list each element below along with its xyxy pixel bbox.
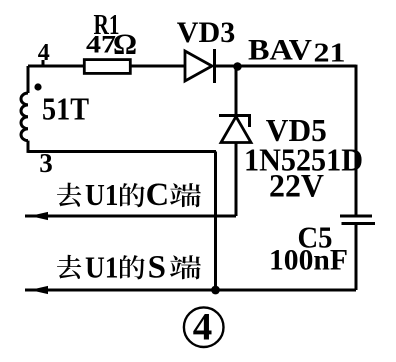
wire: right rail upper (to C5) xyxy=(355,65,358,216)
resistor R1 xyxy=(84,60,130,74)
wire: right rail lower (C5 to S line) xyxy=(355,224,358,291)
svg-text:21: 21 xyxy=(314,38,346,68)
wire: VD5 anode down to C line xyxy=(235,143,238,217)
svg-text:VD3: VD3 xyxy=(177,16,236,49)
svg-text:100nF: 100nF xyxy=(269,244,348,277)
svg-text:S: S xyxy=(148,250,166,286)
wire: C-terminal line xyxy=(25,215,236,218)
wire: S-terminal line xyxy=(25,289,356,292)
svg-text:22V: 22V xyxy=(269,169,324,205)
wire: R1 to VD3 xyxy=(131,65,186,68)
zener diode VD5 xyxy=(219,116,251,143)
wire: node A to top-right corner xyxy=(237,65,356,68)
pin label 4 xyxy=(38,40,50,66)
polarity dot xyxy=(34,83,41,90)
capacitor C5 xyxy=(340,216,375,224)
wire: top rail pin4 to R1 xyxy=(28,65,84,68)
svg-text:C: C xyxy=(146,177,169,213)
svg-text:51T: 51T xyxy=(42,91,89,127)
svg-text:4: 4 xyxy=(193,306,213,349)
node A junction dot xyxy=(233,62,242,71)
svg-text:BAV: BAV xyxy=(248,34,312,67)
wire: pin3 horizontal xyxy=(28,150,216,153)
svg-text:U1: U1 xyxy=(85,177,119,212)
arrow to U1 C terminal xyxy=(30,212,48,220)
wire: VD3 to node A xyxy=(215,65,239,68)
figure number 4 (circled) xyxy=(184,306,224,349)
svg-text:47: 47 xyxy=(86,32,116,59)
label go-to-U1-C (去U1的C端) xyxy=(57,177,201,213)
diode VD3 xyxy=(185,49,215,83)
value 47&#937; xyxy=(86,28,137,61)
label go-to-U1-S (去U1的S端) xyxy=(57,250,201,286)
label BAV21 xyxy=(248,34,346,68)
svg-text:Ω: Ω xyxy=(113,28,137,61)
transformer winding 51T xyxy=(21,66,28,153)
wire: mid vertical (pin3 line down to node B) xyxy=(214,152,217,291)
node B junction dot xyxy=(211,286,220,295)
arrow to U1 S terminal xyxy=(30,286,48,294)
wire: node A down to VD5 cathode xyxy=(235,66,238,115)
svg-text:U1: U1 xyxy=(85,250,119,285)
